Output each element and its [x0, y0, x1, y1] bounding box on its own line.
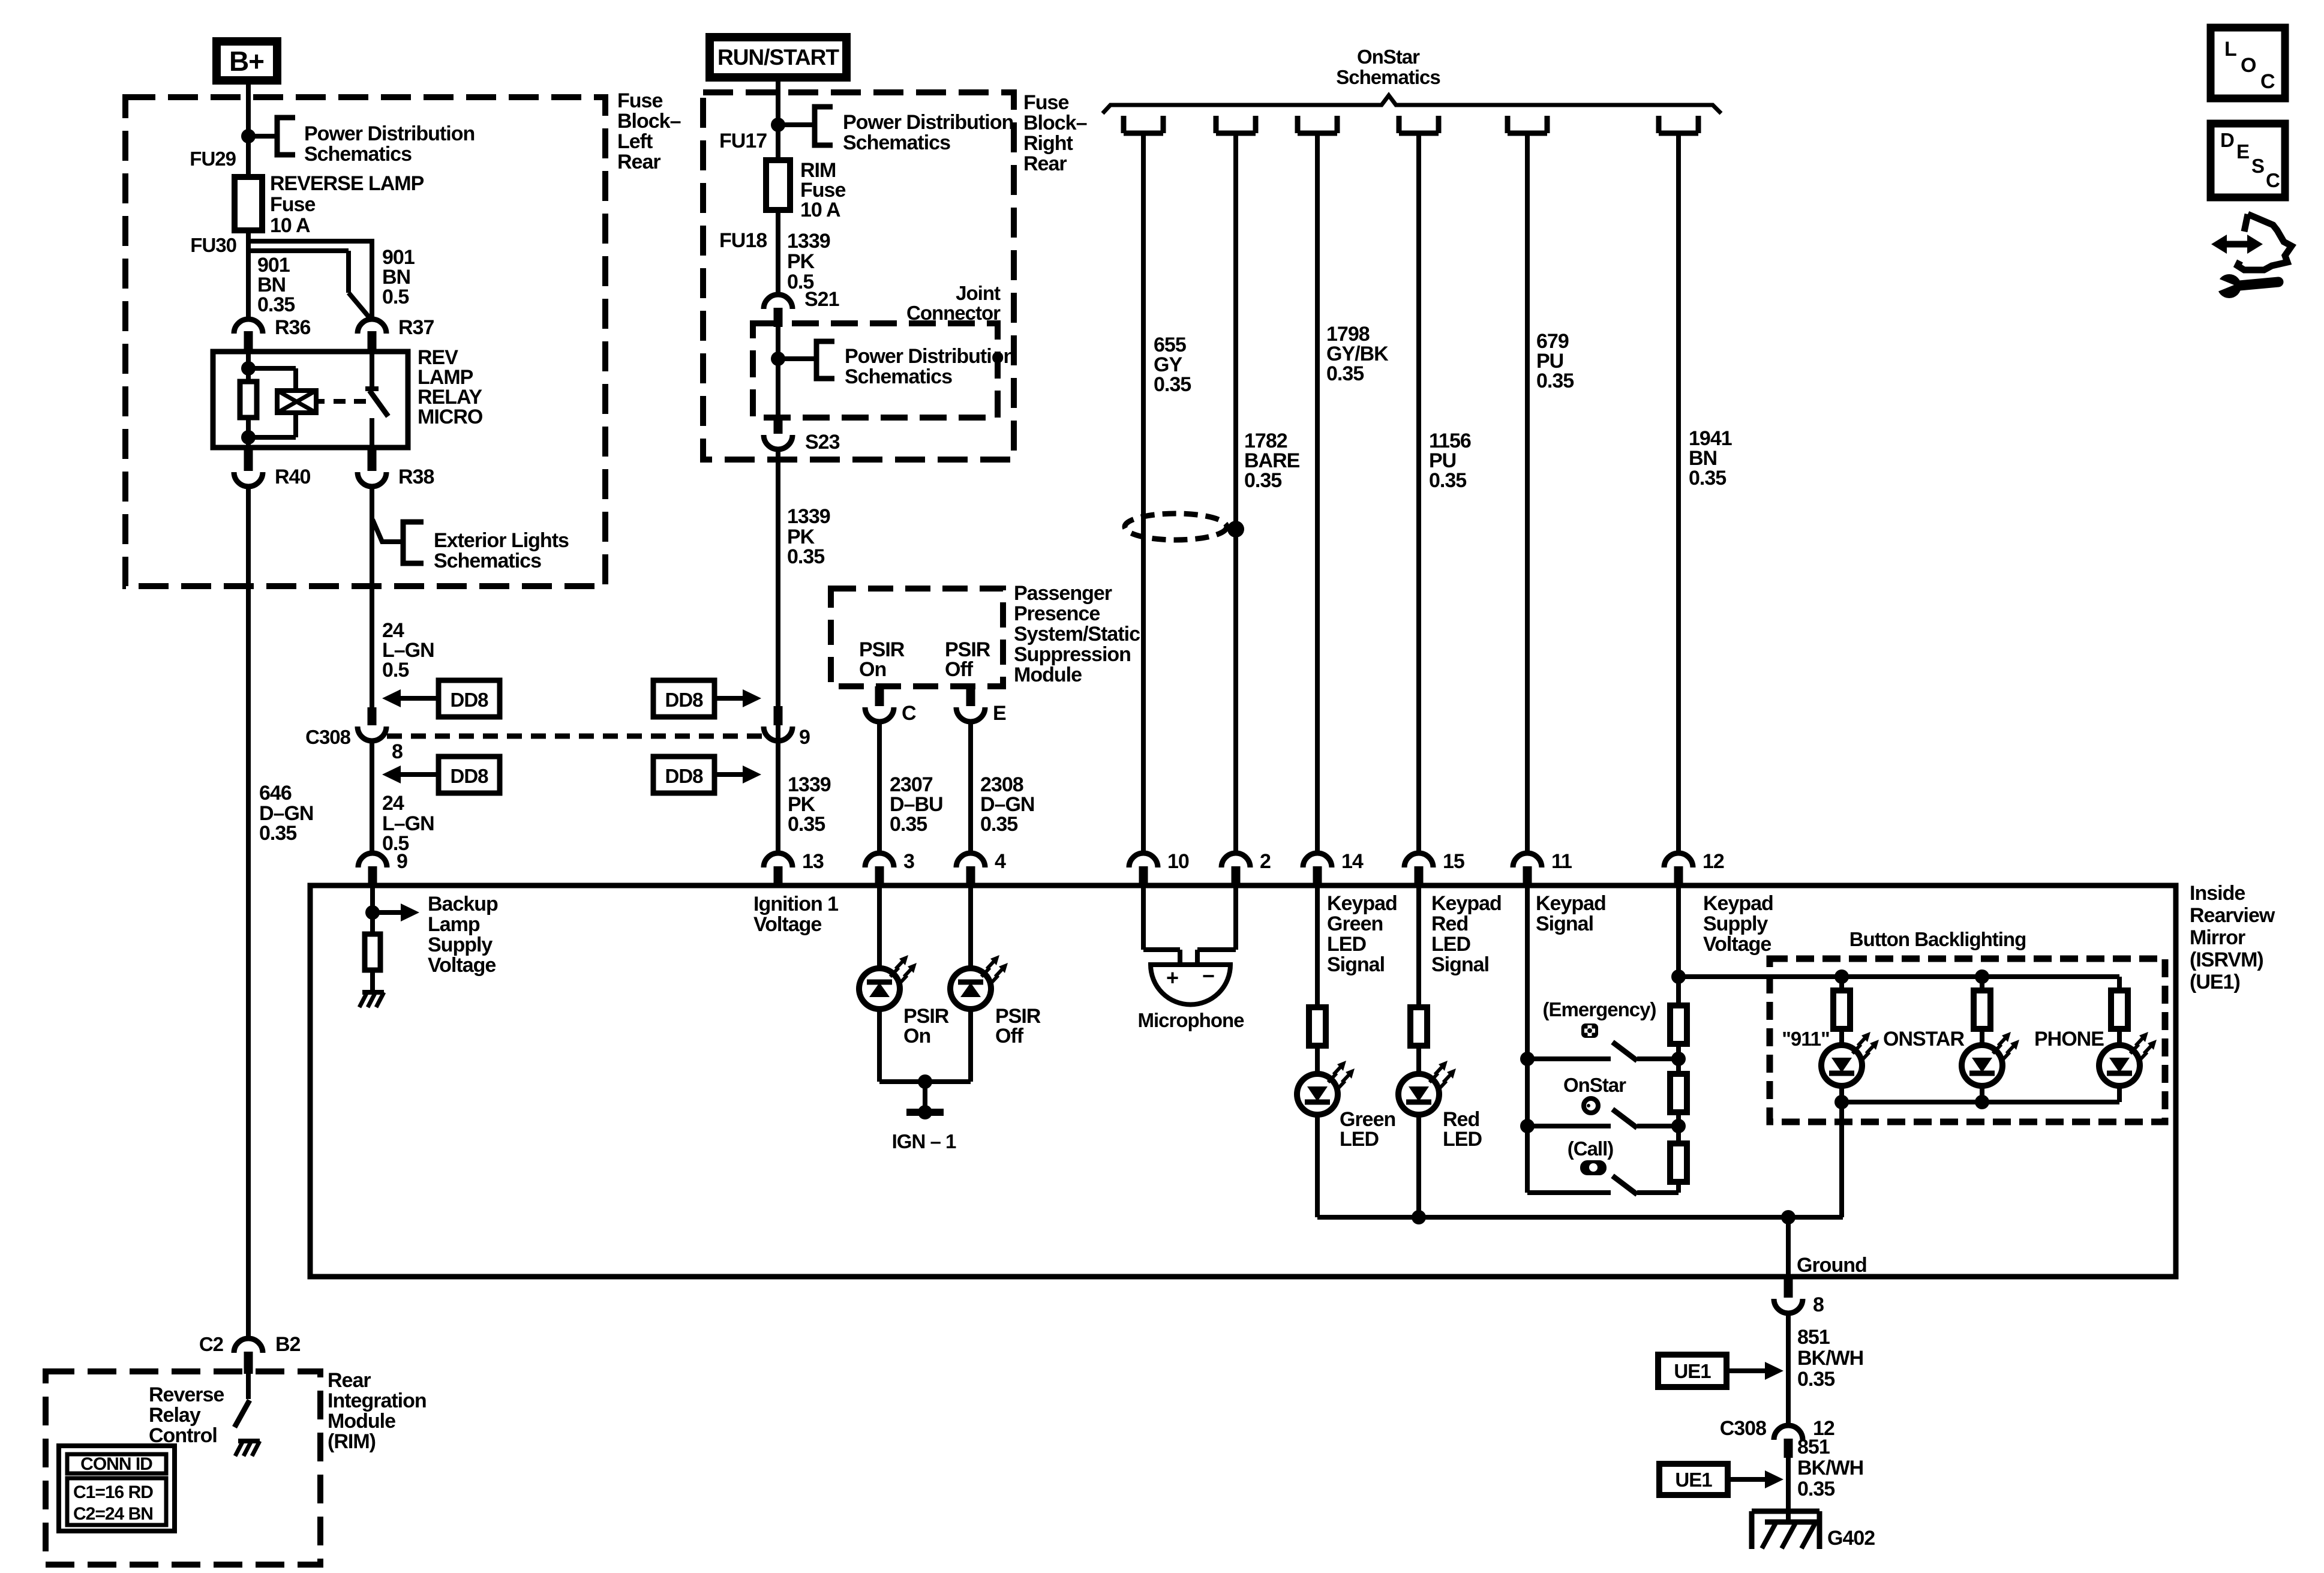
svg-text:B+: B+	[229, 46, 264, 77]
svg-text:ONSTAR: ONSTAR	[1883, 1028, 1964, 1050]
svg-text:UE1: UE1	[1675, 1469, 1712, 1491]
svg-text:System/Static: System/Static	[1014, 623, 1140, 646]
svg-text:(UE1): (UE1)	[2190, 971, 2240, 993]
svg-text:RUN/START: RUN/START	[717, 45, 839, 70]
svg-text:0.35: 0.35	[788, 813, 825, 836]
svg-text:Red: Red	[1431, 912, 1468, 935]
svg-text:Voltage: Voltage	[753, 913, 821, 936]
svg-text:13: 13	[802, 850, 824, 873]
svg-text:O: O	[2241, 54, 2256, 77]
svg-text:Schematics: Schematics	[843, 131, 950, 154]
svg-text:L: L	[2224, 38, 2236, 61]
svg-text:FU18: FU18	[719, 229, 767, 252]
svg-text:10: 10	[1167, 850, 1189, 873]
svg-text:646: 646	[259, 782, 292, 804]
svg-text:15: 15	[1443, 850, 1464, 873]
svg-text:C2=24 BN: C2=24 BN	[73, 1504, 153, 1524]
svg-text:OnStar: OnStar	[1563, 1074, 1626, 1096]
svg-text:R36: R36	[275, 316, 310, 339]
svg-text:FU30: FU30	[190, 234, 236, 256]
svg-text:R38: R38	[398, 466, 434, 488]
svg-text:Schematics: Schematics	[434, 550, 541, 572]
svg-text:Schematics: Schematics	[1336, 66, 1440, 88]
svg-text:FU29: FU29	[190, 148, 236, 170]
svg-text:Mirror: Mirror	[2190, 926, 2245, 949]
svg-text:LED: LED	[1443, 1128, 1482, 1151]
svg-text:Left: Left	[617, 130, 653, 153]
svg-text:0.35: 0.35	[787, 545, 824, 568]
svg-text:0.35: 0.35	[1797, 1478, 1834, 1500]
svg-text:S23: S23	[805, 431, 840, 454]
svg-text:Fuse: Fuse	[1023, 91, 1068, 114]
svg-text:Integration: Integration	[328, 1389, 427, 1412]
svg-text:Schematics: Schematics	[304, 143, 412, 166]
svg-text:Right: Right	[1023, 132, 1073, 155]
svg-text:DD8: DD8	[665, 689, 703, 711]
svg-text:0.35: 0.35	[890, 813, 927, 836]
svg-text:C: C	[2260, 70, 2275, 93]
svg-text:0.35: 0.35	[1536, 370, 1574, 392]
svg-text:MICRO: MICRO	[418, 406, 483, 428]
svg-text:0.35: 0.35	[1797, 1368, 1834, 1391]
svg-text:Schematics: Schematics	[845, 365, 952, 388]
svg-text:Signal: Signal	[1536, 912, 1593, 935]
svg-text:8: 8	[1813, 1293, 1824, 1316]
svg-text:LED: LED	[1340, 1128, 1379, 1151]
svg-text:Connector: Connector	[906, 302, 1001, 324]
svg-text:BK/WH: BK/WH	[1797, 1457, 1863, 1479]
svg-text:OnStar: OnStar	[1357, 46, 1420, 68]
svg-text:UE1: UE1	[1674, 1360, 1711, 1382]
svg-text:0.35: 0.35	[1429, 469, 1466, 492]
svg-text:Backup: Backup	[428, 893, 498, 915]
svg-text:Off: Off	[945, 658, 974, 681]
svg-text:0.35: 0.35	[1689, 467, 1726, 490]
svg-text:0.35: 0.35	[259, 822, 296, 845]
svg-text:DD8: DD8	[665, 765, 703, 787]
svg-text:E: E	[2236, 140, 2249, 163]
svg-text:Microphone: Microphone	[1138, 1009, 1245, 1031]
svg-text:Keypad: Keypad	[1536, 892, 1606, 915]
svg-text:LED: LED	[1431, 933, 1470, 956]
svg-text:Module: Module	[328, 1410, 395, 1433]
svg-text:Green: Green	[1327, 912, 1383, 935]
svg-text:(RIM): (RIM)	[328, 1430, 376, 1453]
svg-text:Joint: Joint	[956, 282, 1001, 304]
svg-text:C308: C308	[1720, 1417, 1766, 1440]
svg-text:0.5: 0.5	[382, 659, 409, 682]
svg-text:B2: B2	[275, 1333, 301, 1356]
svg-text:S: S	[2251, 155, 2264, 177]
svg-text:0.35: 0.35	[980, 813, 1017, 836]
svg-text:Signal: Signal	[1431, 953, 1489, 976]
svg-text:R37: R37	[398, 316, 434, 339]
svg-text:1339: 1339	[787, 230, 830, 253]
svg-text:LED: LED	[1327, 933, 1366, 956]
svg-text:(Call): (Call)	[1568, 1137, 1614, 1160]
svg-text:FU17: FU17	[719, 130, 767, 152]
svg-text:On: On	[903, 1025, 930, 1047]
svg-text:Rear: Rear	[1023, 152, 1067, 175]
svg-text:0.35: 0.35	[257, 293, 295, 316]
svg-text:Button Backlighting: Button Backlighting	[1849, 928, 2026, 950]
svg-text:0.5: 0.5	[382, 286, 409, 308]
svg-text:Power Distribution: Power Distribution	[845, 345, 1015, 368]
svg-text:Relay: Relay	[149, 1404, 201, 1427]
svg-text:10 A: 10 A	[270, 214, 310, 237]
svg-text:9: 9	[799, 726, 810, 749]
svg-text:10 A: 10 A	[800, 199, 840, 221]
svg-text:Supply: Supply	[1703, 912, 1768, 935]
svg-text:Rear: Rear	[328, 1369, 371, 1392]
svg-text:Voltage: Voltage	[428, 954, 496, 977]
svg-text:E: E	[993, 702, 1006, 725]
svg-text:Module: Module	[1014, 664, 1082, 686]
svg-text:9: 9	[397, 850, 407, 873]
svg-text:Inside: Inside	[2190, 882, 2245, 905]
svg-text:PK: PK	[787, 250, 815, 273]
svg-text:Voltage: Voltage	[1703, 933, 1771, 956]
svg-text:Fuse: Fuse	[270, 193, 315, 216]
svg-text:8: 8	[392, 740, 403, 763]
svg-text:D: D	[2220, 129, 2234, 151]
svg-text:Block–: Block–	[1023, 112, 1087, 134]
svg-text:Keypad: Keypad	[1327, 892, 1397, 915]
svg-text:C: C	[2266, 169, 2280, 191]
svg-text:24: 24	[382, 792, 404, 815]
svg-text:Presence: Presence	[1014, 602, 1100, 625]
svg-text:Exterior Lights: Exterior Lights	[434, 529, 569, 552]
svg-text:0.35: 0.35	[1244, 469, 1281, 492]
svg-text:−: −	[1202, 963, 1214, 988]
svg-text:851: 851	[1797, 1436, 1830, 1458]
svg-text:1339: 1339	[787, 505, 830, 528]
svg-text:DD8: DD8	[450, 689, 488, 711]
svg-text:Ground: Ground	[1797, 1254, 1867, 1277]
svg-text:C: C	[902, 702, 916, 725]
svg-text:Keypad: Keypad	[1703, 892, 1773, 915]
svg-text:Rear: Rear	[617, 151, 660, 173]
svg-text:C308: C308	[305, 726, 351, 748]
svg-text:Supply: Supply	[428, 933, 493, 956]
svg-text:12: 12	[1703, 850, 1724, 873]
svg-text:Rearview: Rearview	[2190, 904, 2275, 927]
svg-text:REVERSE LAMP: REVERSE LAMP	[270, 172, 424, 195]
svg-text:3: 3	[903, 850, 914, 873]
svg-text:S21: S21	[804, 288, 839, 311]
svg-text:(Emergency): (Emergency)	[1543, 998, 1656, 1020]
svg-text:0.35: 0.35	[1326, 362, 1364, 385]
svg-text:+: +	[1166, 965, 1178, 990]
svg-text:Passenger: Passenger	[1014, 582, 1112, 605]
svg-text:0.35: 0.35	[1154, 373, 1191, 396]
svg-text:Block–: Block–	[617, 110, 681, 133]
svg-text:2: 2	[1260, 850, 1271, 873]
svg-text:11: 11	[1551, 850, 1572, 873]
svg-text:C1=16 RD: C1=16 RD	[73, 1482, 153, 1502]
svg-text:(ISRVM): (ISRVM)	[2190, 948, 2263, 971]
svg-text:R40: R40	[275, 466, 310, 488]
svg-text:"911": "911"	[1782, 1028, 1830, 1050]
svg-text:Reverse: Reverse	[149, 1383, 224, 1406]
svg-text:Off: Off	[995, 1025, 1024, 1047]
svg-text:C2: C2	[199, 1333, 224, 1355]
svg-text:Keypad: Keypad	[1431, 892, 1502, 915]
svg-text:851: 851	[1797, 1326, 1830, 1349]
svg-text:Fuse: Fuse	[617, 89, 662, 112]
svg-text:Signal: Signal	[1327, 953, 1385, 976]
svg-text:PHONE: PHONE	[2034, 1028, 2104, 1050]
svg-text:4: 4	[995, 850, 1006, 873]
svg-text:Power Distribution: Power Distribution	[843, 111, 1013, 134]
svg-text:IGN – 1: IGN – 1	[892, 1130, 956, 1152]
svg-text:Suppression: Suppression	[1014, 643, 1131, 666]
svg-text:CONN ID: CONN ID	[80, 1454, 152, 1474]
svg-text:G402: G402	[1827, 1527, 1875, 1550]
svg-text:DD8: DD8	[450, 765, 488, 787]
svg-text:Power Distribution: Power Distribution	[304, 122, 475, 145]
svg-text:Lamp: Lamp	[428, 913, 480, 936]
svg-text:On: On	[859, 658, 886, 681]
svg-text:Ignition 1: Ignition 1	[753, 893, 838, 915]
svg-text:BK/WH: BK/WH	[1797, 1347, 1863, 1370]
svg-text:14: 14	[1341, 850, 1364, 873]
